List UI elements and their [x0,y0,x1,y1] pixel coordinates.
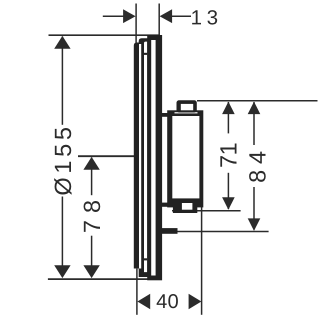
dimension line O155 lower segment [61,197,63,277]
dimension text 78 (rotated) [84,201,101,232]
arrowhead 78 bottom (points down) [83,265,99,278]
extension line left of dim 40 [136,269,138,315]
arrowhead O155 top (points up) [54,36,70,49]
extension line left of dim 13 [135,4,137,44]
dimension line 78 upper segment [91,158,93,196]
flange white core [144,42,147,273]
dimension text 40 [157,294,178,308]
flange crossbar top [144,53,147,55]
arrowhead 71 bottom (points down) [222,197,235,210]
handle interior white [172,116,199,198]
arrowhead 78 top (points up) [83,157,99,170]
dimension line O155 upper segment [61,37,63,125]
extension line right of dim 40 [201,205,203,314]
dim line tail right of 13 [170,15,191,17]
reference line handle bottom [172,210,241,212]
flange crossbar bottom [144,258,147,260]
extension line right of dim 13 [158,4,160,36]
reference line knob top right [197,100,318,102]
dimension line 71 upper segment [227,102,229,133]
arrowhead 13 left (points right) [123,9,136,23]
dimension line 84 lower segment [253,187,255,230]
arrowhead 84 bottom (points down) [248,218,261,231]
handle bottom cap extension to plate [161,203,168,207]
stem interior white [182,203,193,210]
knob interior white [181,104,193,110]
plate step foot [158,228,178,234]
handle body outline [167,110,203,207]
dimension text 84 (rotated) [249,152,266,182]
arrowhead 71 top (points up) [222,102,235,115]
dimension text 13 [192,10,217,25]
top reference line (plate top) [49,34,160,36]
flange outer bar (second element) [139,38,151,277]
dimension text O155 (rotated) [54,128,71,195]
valve sleeve bar (leftmost dark bar) [134,43,139,269]
plate body (outer dark bar) [147,35,162,280]
dimension line 71 lower segment [227,173,229,209]
dimension line 78 lower segment [91,236,93,277]
knob outline on top [177,100,197,112]
plate white slot 1 [151,40,155,276]
arrowhead 13 right (points left) [160,9,173,23]
center reference line of handle [78,155,146,157]
dimension text 71 (rotated) [220,144,236,167]
handle cap extension to plate [161,113,169,117]
stem outline below handle [173,203,197,213]
handle cap groove white line [175,112,198,113]
arrowhead 40 left (points left) [137,294,150,309]
arrowhead 84 top (points up) [248,102,261,115]
white gap between sleeve and flange [139,44,141,269]
arrowhead O155 bottom (points down) [54,265,70,278]
arrowhead 40 right (points right) [189,294,202,309]
dimension line 84 upper segment [253,102,255,145]
reference line stem bottom [178,231,269,233]
dim line tail left of 13 [103,15,125,17]
bottom reference line (plate bottom) [48,278,161,280]
